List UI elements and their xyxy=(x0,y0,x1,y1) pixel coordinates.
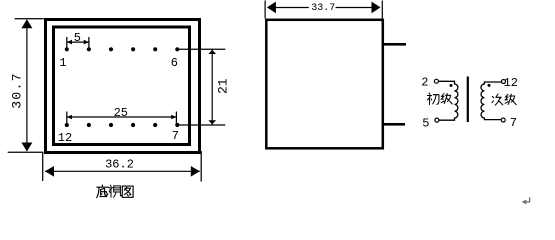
dimension 25: left arrowhead xyxy=(67,115,72,120)
pin 1 xyxy=(65,47,69,51)
schematic: terminal label 7 xyxy=(510,116,517,130)
side view: dimension 33.7 left extension line xyxy=(264,1,266,19)
dimension 30.7: dimension line xyxy=(26,20,28,151)
dimension 33.7: right arrowhead xyxy=(372,2,381,14)
schematic: terminal circle pin 5 xyxy=(435,118,439,122)
label 初级 (primary) : char 初 xyxy=(427,93,439,104)
svg-text:2: 2 xyxy=(421,75,428,89)
dimension 21: leader line from pin 7 xyxy=(177,124,225,126)
dimension 5: right arrowhead xyxy=(84,40,89,45)
secondary polarity dot xyxy=(488,84,491,87)
upper pin (side view) xyxy=(383,43,406,46)
pin label 6 xyxy=(171,56,178,70)
pin 7 xyxy=(175,123,179,127)
dimension 25: value label xyxy=(114,106,128,120)
dimension 21: top arrowhead xyxy=(208,50,216,54)
dimension 25: extension ticks xyxy=(67,112,177,124)
dimension 33.7: value label xyxy=(311,3,335,14)
svg-text:33.7: 33.7 xyxy=(311,3,335,14)
schematic: terminal label 5 xyxy=(422,117,429,131)
dimension 25: right arrowhead xyxy=(171,115,176,120)
svg-text:5: 5 xyxy=(74,31,81,45)
pin 3 (top row) xyxy=(109,47,113,51)
label 次级 (secondary) : char 次 xyxy=(492,94,503,105)
schematic: terminal circle pin 12 xyxy=(502,80,506,84)
title 底视图 : char 视 xyxy=(109,185,122,197)
case inner wall rectangle xyxy=(54,27,190,145)
case outline (side view rectangle) xyxy=(266,20,383,149)
dimension 36.2: left extension line xyxy=(42,153,44,182)
svg-text:12: 12 xyxy=(504,76,518,90)
title 底视图 (bottom view) : char 底 xyxy=(97,185,109,198)
pin label 1 xyxy=(59,56,66,70)
svg-text:7: 7 xyxy=(510,116,517,130)
paragraph return mark xyxy=(522,197,530,204)
pin 10 (bottom row) xyxy=(109,123,113,127)
dimension 30.7: top extension line xyxy=(15,18,44,20)
dimension 33.7: left arrowhead xyxy=(267,2,276,14)
primary winding P1 (wires + coil) xyxy=(439,81,458,120)
pin 2 (top row) xyxy=(87,47,91,51)
schematic: terminal circle pin 2 xyxy=(434,79,438,83)
dimension 36.2: dimension line xyxy=(45,170,200,172)
dimension 30.7: value label (rotated) xyxy=(10,72,25,109)
label 初级 : char 级 xyxy=(441,94,452,105)
side view: dimension 33.7 right extension line xyxy=(381,1,383,19)
dimension 25: dimension line xyxy=(67,116,177,118)
dimension 36.2: right arrowhead xyxy=(191,166,200,177)
dimension 5: dimension line xyxy=(67,41,89,43)
pin 12 xyxy=(65,123,69,127)
svg-text:30.7: 30.7 xyxy=(10,72,25,109)
svg-text:25: 25 xyxy=(114,106,128,120)
secondary winding S1 (wires + coil) xyxy=(481,82,502,120)
dimension 21: value label (rotated) xyxy=(215,78,230,94)
schematic: terminal circle pin 7 xyxy=(501,118,505,122)
transformer core xyxy=(467,77,469,123)
title 底视图 : char 图 xyxy=(122,186,133,197)
dimension 36.2: right extension line xyxy=(200,151,202,182)
svg-text:1: 1 xyxy=(59,56,66,70)
dimension 5 (pin pitch): extension ticks xyxy=(67,37,89,48)
pin 8 (bottom row) xyxy=(153,123,157,127)
dimension 30.7: top arrowhead xyxy=(21,19,32,28)
svg-text:7: 7 xyxy=(172,129,179,143)
svg-text:5: 5 xyxy=(422,117,429,131)
pin 5 (top row) xyxy=(153,47,157,51)
dimension 30.7: bottom extension line xyxy=(8,151,44,153)
dimension 21: leader line from pin 6 xyxy=(177,48,225,50)
dimension 5: value label xyxy=(74,31,81,45)
dimension 5: left arrowhead xyxy=(67,40,72,45)
schematic: terminal label 2 xyxy=(421,75,428,89)
pin 11 (bottom row) xyxy=(87,123,91,127)
pin 4 (top row) xyxy=(131,47,135,51)
pin label 7 xyxy=(172,129,179,143)
pin label 12 xyxy=(58,131,72,145)
svg-text:12: 12 xyxy=(58,131,72,145)
svg-text:6: 6 xyxy=(171,56,178,70)
label 次级 : char 级 xyxy=(505,94,516,105)
dimension 36.2: value label xyxy=(105,158,134,172)
case outline (bottom view outer rectangle) xyxy=(46,20,200,153)
svg-text:21: 21 xyxy=(215,78,230,94)
primary polarity dot xyxy=(450,84,453,87)
pin 6 xyxy=(175,47,179,51)
dimension 33.7: dimension line xyxy=(275,7,372,9)
dimension 36.2: left arrowhead xyxy=(45,166,54,177)
svg-text:36.2: 36.2 xyxy=(105,158,134,172)
lower pin (side view) xyxy=(383,123,405,126)
dimension 21: dimension line xyxy=(211,49,213,125)
dimension 30.7: bottom arrowhead xyxy=(21,143,32,152)
pin 9 (bottom row) xyxy=(131,123,135,127)
schematic: terminal label 12 xyxy=(504,76,518,90)
dimension 21: bottom arrowhead xyxy=(208,120,216,124)
